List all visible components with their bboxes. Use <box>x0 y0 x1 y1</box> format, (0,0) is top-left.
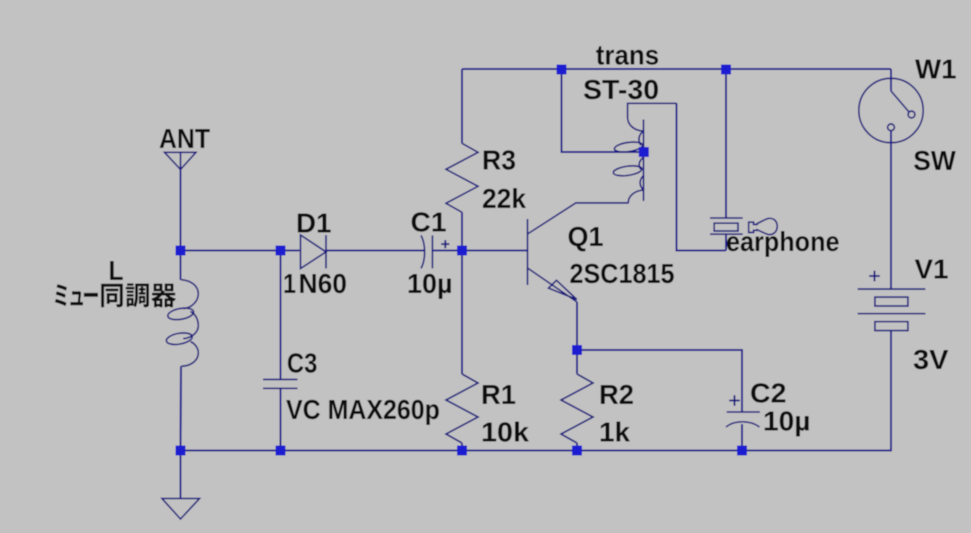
svg-text:C1: C1 <box>411 206 447 238</box>
svg-text:SW: SW <box>913 144 956 176</box>
svg-text:Q1: Q1 <box>568 220 604 252</box>
svg-text:10k: 10k <box>481 416 529 448</box>
svg-text:D1: D1 <box>296 207 332 239</box>
svg-text:VC MAX260p: VC MAX260p <box>286 393 440 425</box>
svg-text:1: 1 <box>283 267 296 299</box>
svg-text:ANT: ANT <box>159 122 210 154</box>
svg-text:3V: 3V <box>913 343 949 375</box>
svg-text:22k: 22k <box>482 182 526 214</box>
svg-text:W1: W1 <box>915 53 957 85</box>
svg-text:R2: R2 <box>599 378 634 410</box>
svg-text:L: L <box>109 254 124 286</box>
svg-text:10µ: 10µ <box>407 267 453 299</box>
svg-text:trans: trans <box>596 39 659 71</box>
svg-text:ST-30: ST-30 <box>583 73 659 105</box>
svg-text:C3: C3 <box>287 346 318 378</box>
svg-text:2SC1815: 2SC1815 <box>570 257 675 289</box>
svg-text:10µ: 10µ <box>763 405 811 437</box>
svg-text:R3: R3 <box>482 144 516 176</box>
svg-text:N60: N60 <box>299 267 348 299</box>
svg-text:R1: R1 <box>481 378 516 410</box>
svg-text:earphone: earphone <box>726 225 840 257</box>
svg-text:1k: 1k <box>599 416 630 448</box>
svg-text:V1: V1 <box>915 253 949 285</box>
